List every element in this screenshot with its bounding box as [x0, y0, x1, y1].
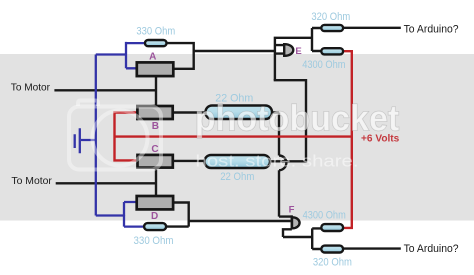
svg-text:C: C — [151, 144, 158, 155]
svg-text:4300 Ohm: 4300 Ohm — [303, 209, 346, 221]
svg-text:To Arduino?: To Arduino? — [404, 24, 459, 36]
svg-text:22 Ohm: 22 Ohm — [220, 171, 254, 183]
svg-text:330 Ohm: 330 Ohm — [134, 235, 174, 247]
svg-text:D: D — [151, 211, 158, 222]
svg-text:4300 Ohm: 4300 Ohm — [302, 59, 345, 71]
svg-text:B: B — [152, 121, 159, 132]
svg-text:F: F — [289, 205, 295, 216]
svg-text:330 Ohm: 330 Ohm — [136, 26, 175, 38]
svg-text:A: A — [149, 51, 156, 62]
svg-text:photobucket: photobucket — [195, 98, 400, 139]
svg-text:320 Ohm: 320 Ohm — [313, 257, 352, 269]
svg-text:E: E — [295, 46, 301, 57]
svg-text:host. store. share.: host. store. share. — [196, 152, 359, 171]
svg-text:To Motor: To Motor — [11, 83, 51, 94]
svg-text:To Motor: To Motor — [11, 176, 52, 187]
svg-text:320 Ohm: 320 Ohm — [311, 11, 350, 23]
svg-text:To Arduino?: To Arduino? — [404, 243, 459, 255]
